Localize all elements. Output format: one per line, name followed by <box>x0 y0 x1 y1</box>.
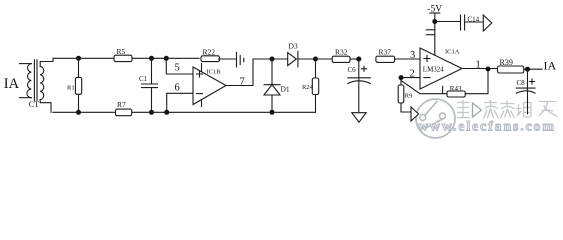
svg-text:R24: R24 <box>302 84 314 91</box>
node -5V junction <box>432 19 437 24</box>
diode D1 <box>264 59 290 112</box>
wire pin 3 label <box>410 50 415 61</box>
diode D3 <box>272 41 316 66</box>
ground (triangle) under C6 <box>352 113 366 123</box>
node R1 top junction <box>76 56 81 61</box>
node C1 top junction <box>149 56 154 61</box>
svg-text:R7: R7 <box>117 100 126 109</box>
svg-text:CT: CT <box>29 100 39 109</box>
node IA output label <box>544 58 557 72</box>
resistor R32 <box>316 48 359 63</box>
node C6 junction <box>356 57 361 62</box>
watermark www.elecfans.com <box>418 120 554 135</box>
watermark chinese characters <box>457 100 558 119</box>
wire pin 6 <box>167 83 193 113</box>
resistor R1 <box>67 58 82 112</box>
wire pin 2 <box>401 69 420 80</box>
svg-text:C8: C8 <box>517 79 526 87</box>
svg-text:D3: D3 <box>289 41 298 50</box>
node IA input label <box>4 76 20 92</box>
node pin6 branch junction <box>164 110 169 115</box>
svg-text:6: 6 <box>175 83 180 94</box>
resistor R37 <box>376 48 420 63</box>
wire feedback to R43 <box>401 78 447 94</box>
node output junction <box>486 67 491 72</box>
svg-text:R39: R39 <box>500 58 513 67</box>
transformer CT label <box>29 100 39 109</box>
wire secondary top lead <box>40 58 53 66</box>
svg-text:C14: C14 <box>468 16 480 24</box>
node rectifier junction <box>270 57 275 62</box>
resistor R39 <box>498 58 543 73</box>
svg-text:5: 5 <box>175 63 180 74</box>
capacitor C6 (polarized) <box>348 59 371 112</box>
svg-text:1: 1 <box>476 60 481 71</box>
ground (triangle right) after C14 <box>483 15 492 31</box>
svg-text:IC1B: IC1B <box>207 69 222 76</box>
resistor R22 <box>201 48 220 62</box>
svg-text:R37: R37 <box>379 48 392 57</box>
transformer CT core <box>34 60 37 101</box>
wire IC1A output pin 1 <box>462 60 498 71</box>
node D1 bottom junction <box>270 110 275 115</box>
ground (triangle right) for R9 <box>411 107 419 121</box>
svg-text:R1: R1 <box>67 84 75 91</box>
wire top rail to pin5 branch <box>132 57 199 59</box>
resistor R24 <box>302 59 319 112</box>
svg-text:R5: R5 <box>117 47 126 56</box>
wire secondary bottom lead <box>40 100 51 113</box>
svg-text:C1: C1 <box>139 75 148 83</box>
capacitor C1 <box>139 58 158 112</box>
svg-text:D1: D1 <box>281 84 290 93</box>
svg-text:C6: C6 <box>348 66 357 74</box>
svg-text:2: 2 <box>410 69 415 80</box>
watermark logo circle <box>416 99 455 138</box>
wire R22 to ground <box>219 58 237 60</box>
ground (bar style) right of R22 <box>237 53 244 68</box>
svg-text:7: 7 <box>240 77 245 88</box>
resistor R7 <box>116 100 132 116</box>
op-amp U-IC1B <box>193 64 226 107</box>
node C8 junction <box>525 67 530 72</box>
op-amp U-IC1A <box>420 48 462 94</box>
svg-text:R43: R43 <box>450 85 462 93</box>
transformer CT primary winding <box>20 64 32 98</box>
svg-text:www.elecfans.com: www.elecfans.com <box>418 120 554 135</box>
wire pin 5 <box>166 58 193 74</box>
node C1 bottom junction <box>149 110 154 115</box>
svg-text:R22: R22 <box>203 48 216 57</box>
wire top rail left <box>53 57 114 59</box>
node R24 top junction <box>313 57 318 62</box>
transformer CT secondary winding <box>40 66 44 99</box>
resistor R5 <box>114 47 132 61</box>
resistor R43 <box>447 69 488 97</box>
wire bottom rail <box>53 111 316 113</box>
wire IC1B output pin 7 <box>226 59 272 88</box>
capacitor C8 (polarized) <box>516 69 535 114</box>
svg-text:LM324: LM324 <box>423 65 445 73</box>
svg-text:R32: R32 <box>335 48 348 57</box>
node pin2 junction <box>399 75 404 80</box>
svg-text:3: 3 <box>410 50 415 61</box>
svg-text:IA: IA <box>544 58 557 72</box>
svg-text:IA: IA <box>4 76 20 92</box>
svg-text:R9: R9 <box>405 92 413 99</box>
svg-text:IC1A: IC1A <box>445 49 460 56</box>
capacitor C14 <box>435 15 484 30</box>
node pin5 branch junction <box>164 56 169 61</box>
resistor R9 <box>398 78 412 112</box>
node R1 bottom junction <box>76 110 81 115</box>
power -5V terminal <box>426 5 442 56</box>
